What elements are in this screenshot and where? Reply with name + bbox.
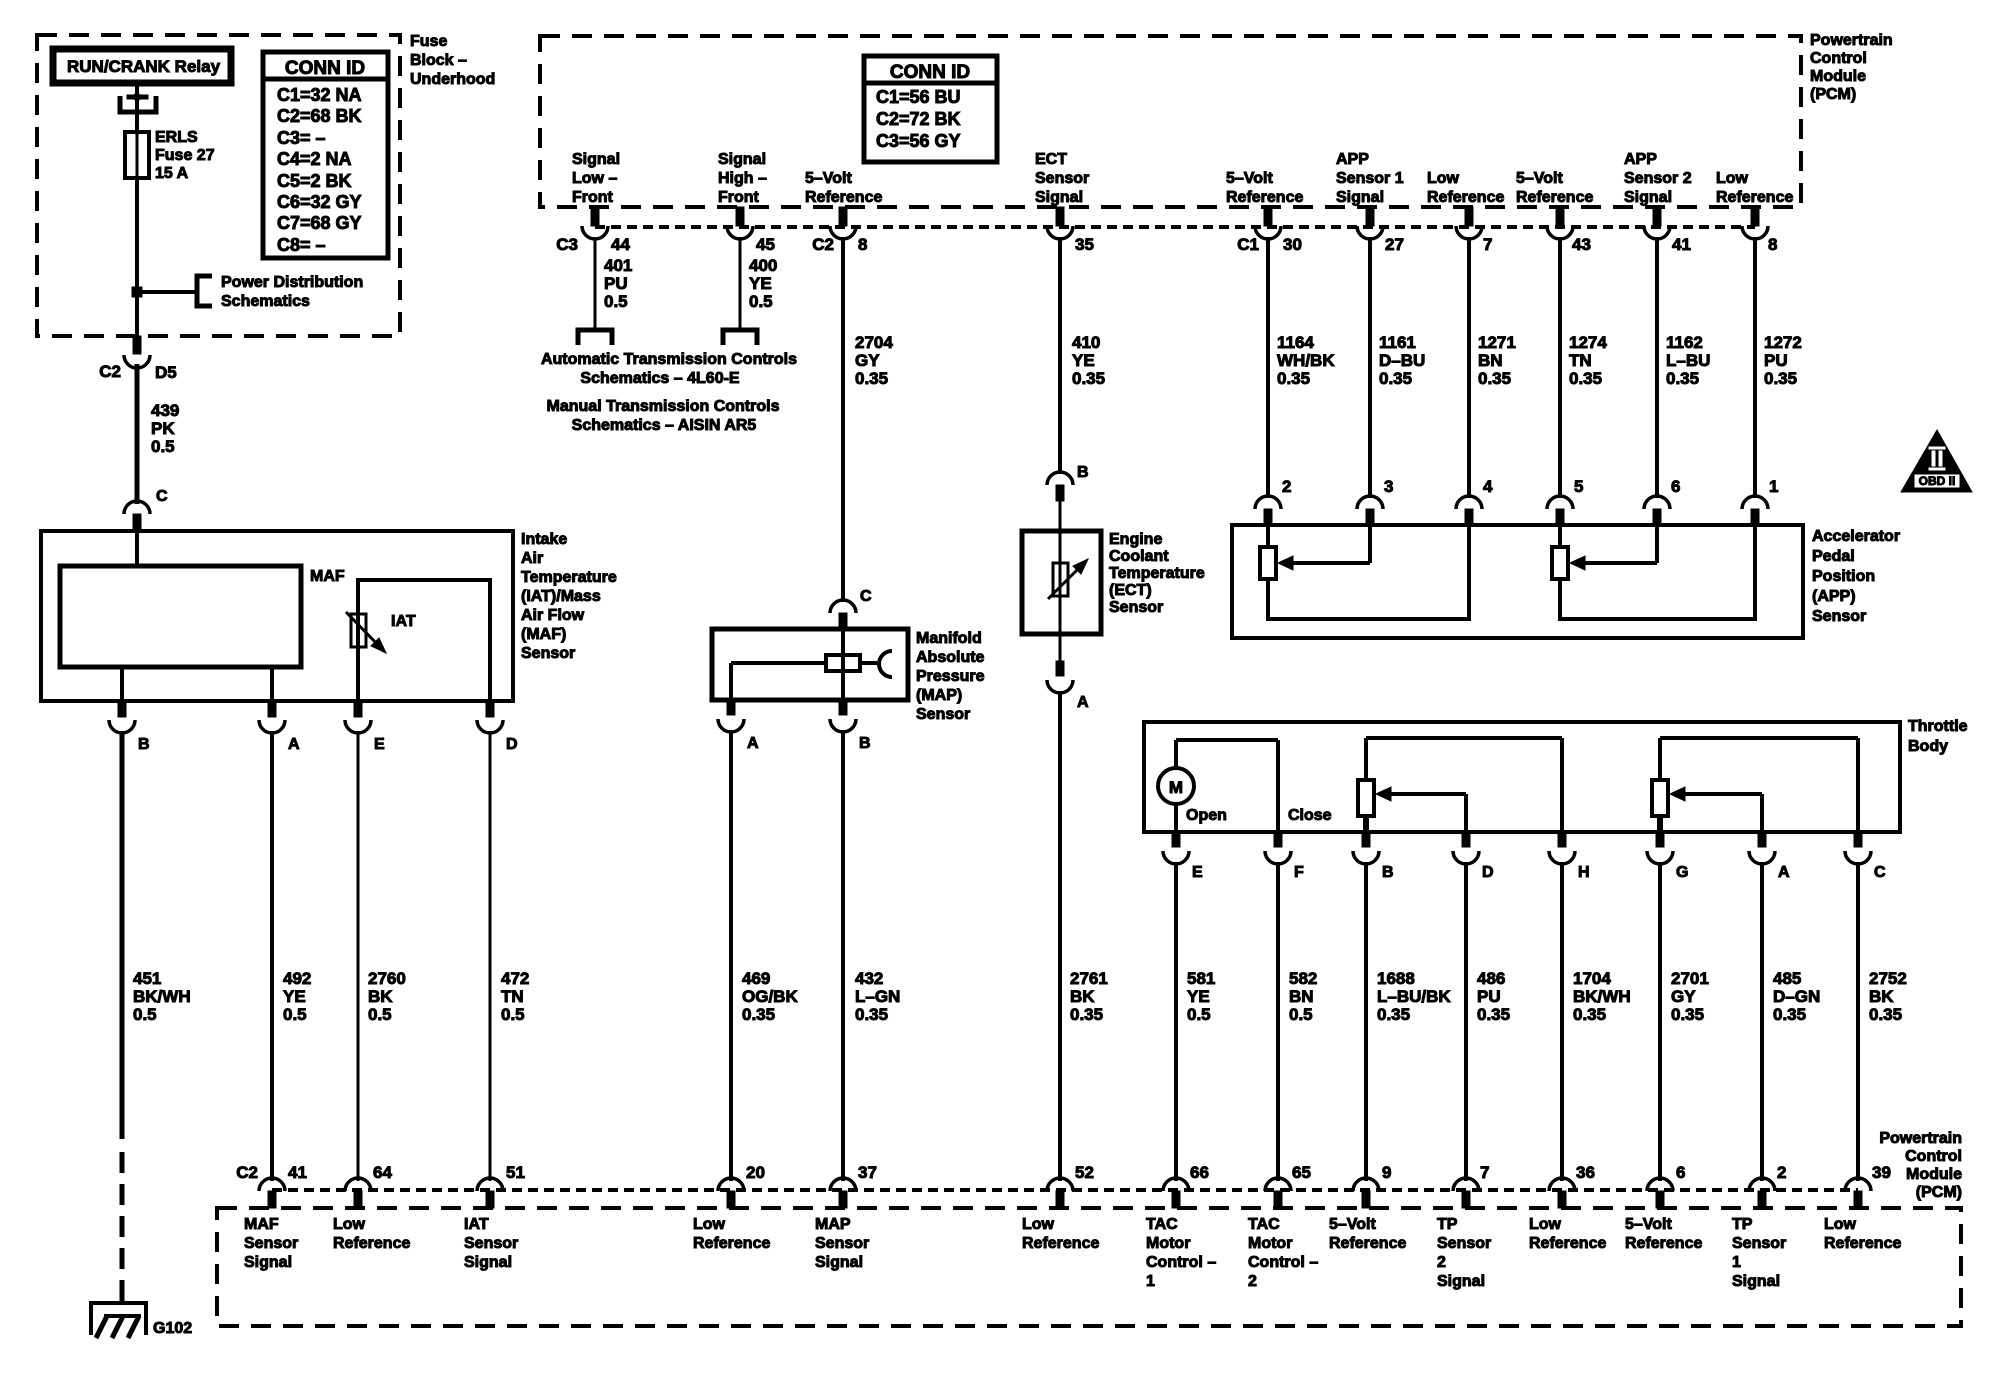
APP pin 3 xyxy=(1357,477,1393,526)
PCM pin label APP Signal xyxy=(1624,151,1692,206)
svg-text:G: G xyxy=(1676,864,1688,881)
svg-text:CONN ID: CONN ID xyxy=(890,62,970,83)
PCM pin 20 (bottom) xyxy=(718,1178,744,1208)
svg-text:C: C xyxy=(1874,864,1886,881)
junction xyxy=(132,287,142,297)
label 1162 xyxy=(1666,333,1710,388)
label Engine Coolant Temperature (ECT) Sensor xyxy=(1109,531,1205,616)
svg-text:Power Distribution: Power Distribution xyxy=(221,274,363,291)
throttle body pin G xyxy=(1647,832,1688,881)
svg-text:Intake: Intake xyxy=(521,531,567,548)
svg-text:PK: PK xyxy=(151,419,175,438)
svg-text:GY: GY xyxy=(1671,987,1696,1006)
MAF pin A xyxy=(259,701,300,753)
PCM pin label 5–Volt Reference (bottom) xyxy=(1625,1216,1702,1252)
svg-text:43: 43 xyxy=(1572,235,1591,254)
svg-text:Control –: Control – xyxy=(1146,1254,1216,1271)
svg-text:45: 45 xyxy=(756,235,775,254)
svg-text:F: F xyxy=(1294,864,1304,881)
relay contact symbol xyxy=(120,92,156,112)
off-page bracket (manual transmission) xyxy=(723,330,757,345)
svg-text:7: 7 xyxy=(1480,1163,1489,1182)
label Accelerator Pedal Position (APP) Sensor xyxy=(1812,528,1900,625)
power distribution bracket xyxy=(197,274,363,310)
svg-text:51: 51 xyxy=(506,1163,525,1182)
svg-text:0.35: 0.35 xyxy=(1666,369,1699,388)
label 401 PU 0.5 xyxy=(604,256,632,311)
svg-text:Open: Open xyxy=(1186,807,1227,824)
svg-text:C2: C2 xyxy=(812,235,834,254)
svg-text:BK: BK xyxy=(1869,987,1894,1006)
svg-text:Absolute: Absolute xyxy=(916,649,985,666)
svg-text:Reference: Reference xyxy=(1529,1235,1606,1252)
PCM pin label Signal Front xyxy=(572,151,620,206)
svg-text:1688: 1688 xyxy=(1377,969,1415,988)
svg-text:A: A xyxy=(1077,694,1089,711)
svg-text:WH/BK: WH/BK xyxy=(1277,351,1335,370)
svg-text:C8= –: C8= – xyxy=(277,235,326,255)
svg-text:Powertrain: Powertrain xyxy=(1810,32,1893,49)
svg-text:Module: Module xyxy=(1906,1166,1962,1183)
svg-text:0.35: 0.35 xyxy=(1070,1005,1103,1024)
svg-text:0.35: 0.35 xyxy=(855,369,888,388)
wire 401 PU xyxy=(594,237,597,329)
svg-text:C1=32 NA: C1=32 NA xyxy=(277,85,362,105)
intake air temperature / mass air flow sensor box xyxy=(41,531,513,701)
throttle body pin B xyxy=(1353,832,1394,881)
powertrain control module PCM dashed box (bottom) xyxy=(217,1208,1961,1326)
APP pot 2 wiper xyxy=(1570,525,1657,570)
connector C at MAF sensor xyxy=(124,488,168,532)
svg-text:Low: Low xyxy=(1716,170,1749,187)
PCM pin label Low Reference (bottom) xyxy=(1824,1216,1901,1252)
IAT thermistor xyxy=(346,612,386,653)
wire fuse to junction xyxy=(136,132,139,178)
wire 1704 BK/WH xyxy=(1560,862,1564,1181)
svg-text:Close: Close xyxy=(1288,807,1332,824)
svg-text:0.5: 0.5 xyxy=(501,1005,525,1024)
svg-text:486: 486 xyxy=(1477,969,1505,988)
svg-text:A: A xyxy=(288,736,300,753)
svg-text:Schematics: Schematics xyxy=(221,293,310,310)
svg-text:30: 30 xyxy=(1283,235,1302,254)
svg-text:0.35: 0.35 xyxy=(1477,1005,1510,1024)
svg-text:1164: 1164 xyxy=(1277,333,1314,352)
svg-text:Coolant: Coolant xyxy=(1109,548,1169,565)
svg-text:(MAF): (MAF) xyxy=(521,626,566,643)
svg-text:0.35: 0.35 xyxy=(1869,1005,1902,1024)
APP pin 5 xyxy=(1547,477,1583,526)
svg-text:44: 44 xyxy=(611,235,630,254)
svg-text:Block –: Block – xyxy=(410,52,467,69)
svg-text:0.35: 0.35 xyxy=(742,1005,775,1024)
wire MAF pin B inner xyxy=(120,667,124,701)
svg-text:Low: Low xyxy=(1529,1216,1562,1233)
TP pot 1 wiper xyxy=(1376,787,1466,832)
svg-text:BK: BK xyxy=(368,987,393,1006)
svg-text:OG/BK: OG/BK xyxy=(742,987,798,1006)
fuse block underhood dashed box xyxy=(37,35,400,336)
svg-text:D–GN: D–GN xyxy=(1773,987,1820,1006)
svg-text:Sensor: Sensor xyxy=(1812,608,1866,625)
svg-text:581: 581 xyxy=(1187,969,1215,988)
svg-text:37: 37 xyxy=(858,1163,877,1182)
svg-text:0.35: 0.35 xyxy=(1377,1005,1410,1024)
svg-text:432: 432 xyxy=(855,969,883,988)
label 1274 xyxy=(1569,333,1607,388)
svg-text:8: 8 xyxy=(1768,235,1777,254)
svg-text:High –: High – xyxy=(718,170,767,187)
label 581 xyxy=(1187,969,1215,1024)
svg-text:Engine: Engine xyxy=(1109,531,1162,548)
label 451 BK/WH 0.5 xyxy=(133,969,191,1024)
svg-text:439: 439 xyxy=(151,401,179,420)
label Manifold Absolute Pressure (MAP) Sensor xyxy=(916,630,985,723)
wire 400 YE xyxy=(739,237,742,329)
svg-text:TAC: TAC xyxy=(1248,1216,1280,1233)
svg-text:1: 1 xyxy=(1146,1273,1155,1290)
PCM pin label Low Reference xyxy=(1427,170,1504,206)
ECT pin A: bar + cup xyxy=(1047,661,1089,711)
wire 582 BN xyxy=(1276,862,1280,1181)
svg-text:YE: YE xyxy=(283,987,306,1006)
throttle body box xyxy=(1144,722,1900,832)
MAF pin B xyxy=(109,701,150,753)
svg-text:YE: YE xyxy=(1187,987,1210,1006)
svg-text:Low: Low xyxy=(693,1216,726,1233)
svg-text:Manual Transmission Controls: Manual Transmission Controls xyxy=(547,398,780,415)
ground G102 xyxy=(91,1303,192,1338)
svg-text:41: 41 xyxy=(1672,235,1691,254)
svg-text:1272: 1272 xyxy=(1764,333,1802,352)
svg-text:Reference: Reference xyxy=(1329,1235,1406,1252)
svg-text:Front: Front xyxy=(718,189,760,206)
wire ECT to pin A xyxy=(1059,634,1062,661)
svg-text:Front: Front xyxy=(572,189,614,206)
svg-text:Fuse 27: Fuse 27 xyxy=(155,147,215,164)
MAP pin B xyxy=(830,700,871,752)
CONN ID table (fuse block) xyxy=(263,52,388,258)
svg-text:Reference: Reference xyxy=(1226,189,1303,206)
svg-text:Module: Module xyxy=(1810,68,1866,85)
svg-text:C3: C3 xyxy=(556,235,578,254)
label 439 PK 0.5 xyxy=(151,401,179,456)
APP potentiometer 1 xyxy=(1260,525,1469,621)
label 486 xyxy=(1477,969,1510,1024)
svg-text:Sensor 1: Sensor 1 xyxy=(1336,170,1404,187)
svg-text:B: B xyxy=(138,736,150,753)
svg-text:C1: C1 xyxy=(1237,235,1259,254)
svg-text:0.35: 0.35 xyxy=(855,1005,888,1024)
svg-text:6: 6 xyxy=(1671,477,1680,496)
label 400 YE 0.5 xyxy=(749,256,777,311)
svg-text:OBD II: OBD II xyxy=(1919,474,1956,488)
PCM pin 66 (bottom) xyxy=(1163,1178,1189,1208)
labels Open Close xyxy=(1186,807,1332,824)
svg-text:2701: 2701 xyxy=(1671,969,1709,988)
svg-text:52: 52 xyxy=(1075,1163,1094,1182)
label 2760 BK 0.5 xyxy=(368,969,406,1024)
PCM pin label Signal Front xyxy=(718,151,767,206)
svg-text:BN: BN xyxy=(1289,987,1314,1006)
wire 492 YE xyxy=(270,731,274,1181)
svg-text:1271: 1271 xyxy=(1478,333,1516,352)
svg-text:0.35: 0.35 xyxy=(1671,1005,1704,1024)
wire 485 D–GN xyxy=(1760,862,1764,1181)
wire 1688 L–BU/BK xyxy=(1364,862,1368,1181)
svg-text:Low: Low xyxy=(1427,170,1460,187)
APP pot 1 wiper xyxy=(1278,525,1370,570)
svg-text:0.5: 0.5 xyxy=(1187,1005,1211,1024)
svg-text:YE: YE xyxy=(1072,351,1095,370)
svg-text:PU: PU xyxy=(604,274,628,293)
svg-text:2761: 2761 xyxy=(1070,969,1108,988)
label 472 TN 0.5 xyxy=(501,969,529,1024)
PCM pin 30 xyxy=(1255,207,1281,239)
PCM pin 35 xyxy=(1047,207,1073,239)
svg-text:A: A xyxy=(1778,864,1790,881)
svg-text:2: 2 xyxy=(1282,477,1291,496)
wire 2752 BK xyxy=(1856,862,1860,1181)
svg-text:Signal: Signal xyxy=(1035,189,1083,206)
svg-text:2: 2 xyxy=(1437,1254,1446,1271)
svg-text:0.35: 0.35 xyxy=(1277,369,1310,388)
svg-text:D5: D5 xyxy=(155,363,177,382)
accelerator pedal position APP sensor box xyxy=(1232,525,1803,638)
svg-text:IAT: IAT xyxy=(464,1216,489,1233)
wire 439 PK 0.5 xyxy=(135,364,140,504)
svg-text:C6=32 GY: C6=32 GY xyxy=(277,192,362,212)
svg-text:Schematics – AISIN AR5: Schematics – AISIN AR5 xyxy=(572,417,757,434)
PCM pin 44 xyxy=(582,207,608,239)
svg-text:C: C xyxy=(860,588,872,605)
svg-text:Sensor: Sensor xyxy=(244,1235,298,1252)
engine coolant temperature ECT sensor box xyxy=(1022,531,1101,634)
svg-text:Signal: Signal xyxy=(1437,1273,1485,1290)
PCM pin 7 xyxy=(1456,207,1482,239)
MAP vacuum port arc xyxy=(879,651,892,677)
svg-text:401: 401 xyxy=(604,256,632,275)
svg-text:Schematics – 4L60-E: Schematics – 4L60-E xyxy=(580,370,740,387)
svg-text:Signal: Signal xyxy=(1732,1273,1780,1290)
TP potentiometer 1 xyxy=(1358,738,1562,832)
svg-text:BK: BK xyxy=(1070,987,1095,1006)
svg-text:B: B xyxy=(1077,464,1089,481)
svg-text:C: C xyxy=(156,488,168,505)
svg-text:MAF: MAF xyxy=(244,1216,279,1233)
svg-text:Low –: Low – xyxy=(572,170,617,187)
PCM connector dotted line (top) xyxy=(595,225,1755,229)
MAP inner wires xyxy=(841,629,845,700)
wire 2701 GY xyxy=(1658,862,1662,1181)
svg-text:2752: 2752 xyxy=(1869,969,1907,988)
svg-text:35: 35 xyxy=(1075,235,1094,254)
svg-text:CONN ID: CONN ID xyxy=(285,58,365,79)
svg-text:B: B xyxy=(1382,864,1394,881)
svg-text:Powertrain: Powertrain xyxy=(1879,1130,1962,1147)
svg-text:65: 65 xyxy=(1292,1163,1311,1182)
svg-text:Pressure: Pressure xyxy=(916,668,985,685)
label 1688 xyxy=(1377,969,1451,1024)
PCM pin label 5–Volt Reference xyxy=(1226,170,1303,206)
svg-text:RUN/CRANK Relay: RUN/CRANK Relay xyxy=(67,57,221,76)
label 1271 xyxy=(1478,333,1516,388)
label Intake Air Temperature (IAT)/Mass Air Flow (MAF) Sensor xyxy=(521,531,617,662)
svg-text:582: 582 xyxy=(1289,969,1317,988)
svg-text:B: B xyxy=(859,735,871,752)
label 2704 GY 0.35 xyxy=(855,333,893,388)
svg-text:C4=2 NA: C4=2 NA xyxy=(277,149,352,169)
svg-text:Sensor: Sensor xyxy=(916,706,970,723)
label 2701 xyxy=(1671,969,1709,1024)
svg-text:Motor: Motor xyxy=(1146,1235,1190,1252)
svg-text:Signal: Signal xyxy=(244,1254,292,1271)
svg-text:4: 4 xyxy=(1483,477,1493,496)
PCM pin 65 (bottom) xyxy=(1265,1178,1291,1208)
svg-text:BN: BN xyxy=(1478,351,1503,370)
svg-text:Signal: Signal xyxy=(718,151,766,168)
svg-text:TN: TN xyxy=(501,987,524,1006)
wire 410 YE xyxy=(1058,237,1062,474)
connector C2 pin D5 (fuse block) xyxy=(99,336,176,382)
PCM pin 8 xyxy=(1742,207,1768,239)
svg-text:Reference: Reference xyxy=(1022,1235,1099,1252)
svg-text:TN: TN xyxy=(1569,351,1592,370)
manifold absolute pressure MAP sensor box xyxy=(712,629,908,700)
svg-text:Sensor: Sensor xyxy=(521,645,575,662)
label Powertrain Control Module (PCM) bottom right xyxy=(1879,1130,1962,1201)
svg-text:Reference: Reference xyxy=(1716,189,1793,206)
svg-text:Underhood: Underhood xyxy=(410,71,495,88)
svg-text:5–Volt: 5–Volt xyxy=(805,170,853,187)
svg-text:Sensor: Sensor xyxy=(1035,170,1089,187)
connector C at MAP: dome + bar xyxy=(830,588,872,630)
label 1704 xyxy=(1573,969,1631,1024)
svg-text:Low: Low xyxy=(1022,1216,1055,1233)
svg-text:36: 36 xyxy=(1576,1163,1595,1182)
svg-text:Low: Low xyxy=(333,1216,366,1233)
svg-text:Reference: Reference xyxy=(693,1235,770,1252)
label 1272 xyxy=(1764,333,1802,388)
PCM pin 6 (bottom) xyxy=(1647,1178,1673,1208)
svg-text:Signal: Signal xyxy=(572,151,620,168)
svg-text:Control: Control xyxy=(1905,1148,1962,1165)
svg-text:Position: Position xyxy=(1812,568,1875,585)
CONN ID table (PCM) xyxy=(864,56,997,162)
svg-text:Sensor: Sensor xyxy=(464,1235,518,1252)
svg-text:Sensor 2: Sensor 2 xyxy=(1624,170,1692,187)
svg-text:0.35: 0.35 xyxy=(1573,1005,1606,1024)
svg-text:8: 8 xyxy=(858,235,867,254)
wire 432 L-GN xyxy=(841,730,845,1181)
label Throttle Body xyxy=(1908,718,1968,755)
throttle body pin D xyxy=(1453,832,1494,881)
label 432 L-GN 0.35 xyxy=(855,969,900,1024)
svg-text:0.35: 0.35 xyxy=(1569,369,1602,388)
svg-text:Control –: Control – xyxy=(1248,1254,1318,1271)
wire relay to contact xyxy=(135,86,139,98)
svg-text:451: 451 xyxy=(133,969,161,988)
PCM pin 41 (bottom) xyxy=(259,1178,285,1208)
svg-text:5–Volt: 5–Volt xyxy=(1625,1216,1673,1233)
svg-text:5–Volt: 5–Volt xyxy=(1516,170,1564,187)
svg-text:0.5: 0.5 xyxy=(1289,1005,1313,1024)
svg-text:G102: G102 xyxy=(153,1320,192,1337)
svg-text:Sensor: Sensor xyxy=(1109,599,1163,616)
TAC motor M xyxy=(1158,740,1278,832)
svg-text:(MAP): (MAP) xyxy=(916,687,962,704)
svg-text:Fuse: Fuse xyxy=(410,33,447,50)
svg-text:C2: C2 xyxy=(236,1163,258,1182)
svg-text:Temperature: Temperature xyxy=(521,569,617,586)
svg-text:ERLS: ERLS xyxy=(155,129,198,146)
svg-text:5: 5 xyxy=(1574,477,1583,496)
wire into ECT box xyxy=(1059,501,1062,531)
svg-text:492: 492 xyxy=(283,969,311,988)
throttle body pin F xyxy=(1265,832,1304,881)
label 1161 xyxy=(1379,333,1425,388)
svg-text:Low: Low xyxy=(1824,1216,1857,1233)
svg-text:Reference: Reference xyxy=(1427,189,1504,206)
svg-text:Reference: Reference xyxy=(805,189,882,206)
svg-text:Sensor: Sensor xyxy=(1437,1235,1491,1252)
pin labels top row xyxy=(556,235,1777,254)
wire 451 dashed to ground xyxy=(120,1152,125,1312)
PCM pin label Low Reference (bottom) xyxy=(1022,1216,1099,1252)
svg-text:Reference: Reference xyxy=(333,1235,410,1252)
svg-text:E: E xyxy=(1192,864,1203,881)
TP potentiometer 2 xyxy=(1652,738,1858,832)
wire 1272 PU xyxy=(1753,237,1757,498)
PCM pin label ECT Signal xyxy=(1035,151,1089,206)
svg-text:BK/WH: BK/WH xyxy=(133,987,191,1006)
APP pin 4 xyxy=(1456,477,1493,526)
PCM pin 43 xyxy=(1547,207,1573,239)
PCM pin label Low Reference (bottom) xyxy=(693,1216,770,1252)
PCM pin label Low Reference (bottom) xyxy=(1529,1216,1606,1252)
svg-text:APP: APP xyxy=(1336,151,1369,168)
throttle body pin A xyxy=(1749,832,1790,881)
wire 1162 L–BU xyxy=(1655,237,1659,498)
svg-text:0.35: 0.35 xyxy=(1773,1005,1806,1024)
svg-text:Air: Air xyxy=(521,550,543,567)
TP pot 2 wiper xyxy=(1670,787,1762,832)
wire 1271 BN xyxy=(1467,237,1471,498)
svg-text:(PCM): (PCM) xyxy=(1916,1184,1962,1201)
APP potentiometer 2 xyxy=(1552,525,1755,621)
svg-text:(PCM): (PCM) xyxy=(1810,86,1856,103)
svg-text:Reference: Reference xyxy=(1516,189,1593,206)
label 469 OG/BK 0.35 xyxy=(742,969,798,1024)
PCM pin 45 xyxy=(727,207,753,239)
svg-text:Motor: Motor xyxy=(1248,1235,1292,1252)
svg-text:(IAT)/Mass: (IAT)/Mass xyxy=(521,588,601,605)
label Powertrain Control Module (PCM) top right xyxy=(1810,32,1893,103)
svg-text:Pedal: Pedal xyxy=(1812,548,1855,565)
PCM connector dotted line (bottom) xyxy=(272,1188,1858,1192)
svg-text:5–Volt: 5–Volt xyxy=(1329,1216,1377,1233)
svg-text:0.5: 0.5 xyxy=(368,1005,392,1024)
PCM pin label 5–Volt Reference xyxy=(805,170,882,206)
label 410 YE 0.35 xyxy=(1072,333,1105,388)
MAF inner box xyxy=(60,566,301,667)
throttle body pin E xyxy=(1163,832,1203,881)
svg-text:Air Flow: Air Flow xyxy=(521,607,585,624)
wire 1161 D–BU xyxy=(1368,237,1372,498)
fuse F ERLS Fuse 27 15A xyxy=(125,129,215,182)
ECT inner wire xyxy=(1059,531,1062,634)
svg-text:469: 469 xyxy=(742,969,770,988)
